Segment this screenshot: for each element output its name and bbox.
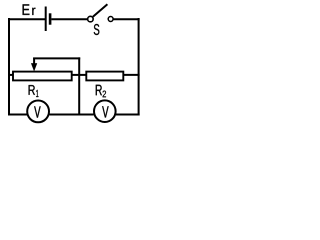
- wire between R1 and R2: [72, 74, 86, 76]
- voltmeter V1 letter: [34, 106, 40, 117]
- wire right vertical: [138, 18, 140, 116]
- wire R2 to right vertical: [123, 74, 140, 76]
- switch S: [88, 4, 113, 22]
- vertical wire slider/junction to bottom: [78, 57, 80, 115]
- rheostat slider arrow stem: [33, 58, 35, 66]
- wire bottom right segment: [116, 114, 140, 116]
- voltmeter V2 letter: [102, 106, 108, 117]
- rheostat slider horizontal wire: [33, 57, 80, 59]
- wire bottom left segment: [8, 114, 27, 116]
- label R1: [29, 85, 35, 95]
- label E: [23, 4, 30, 15]
- wire left vertical: [8, 18, 10, 116]
- resistor R2 body: [86, 72, 123, 81]
- wire between voltmeters: [50, 114, 94, 116]
- label R2: [96, 85, 102, 95]
- wire top-left from left corner to battery: [8, 18, 45, 20]
- wire switch to top-right corner: [113, 18, 139, 20]
- wire battery to switch: [51, 18, 87, 20]
- wire middle row left stub: [8, 74, 13, 76]
- rheostat slider arrowhead: [31, 63, 37, 71]
- voltmeter V1 circle: [27, 101, 49, 123]
- battery E r: [46, 7, 50, 32]
- voltmeter V2 circle: [94, 100, 116, 122]
- label r: [32, 8, 35, 15]
- resistor R1 (rheostat body): [13, 72, 72, 81]
- label R1 subscript 1: [36, 90, 38, 97]
- label S: [94, 24, 100, 35]
- label R2 subscript 2: [103, 91, 106, 98]
